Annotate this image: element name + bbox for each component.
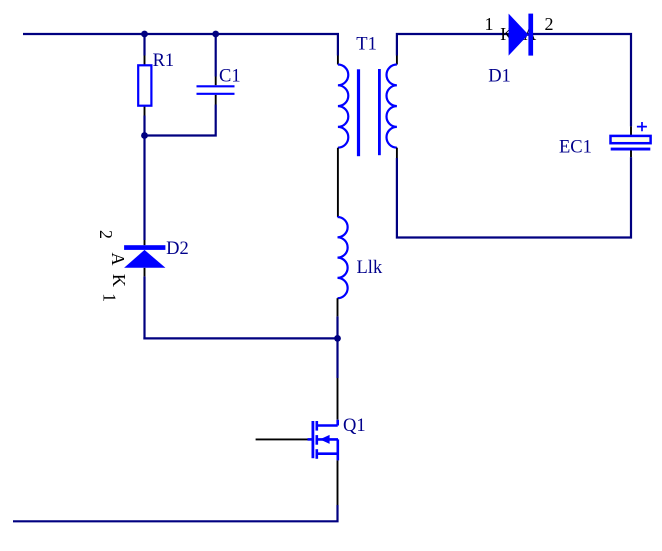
wire: R1 bottom to snubber node bbox=[143, 116, 145, 136]
junction dot: drain node bbox=[334, 335, 341, 342]
svg-text:EC1: EC1 bbox=[559, 138, 592, 158]
wire: C1 top stub bbox=[215, 34, 217, 77]
resistor R1 bbox=[138, 56, 151, 116]
wire: Q1 gate pin lead bbox=[256, 438, 308, 440]
wire: T1 primary bottom lead / Llk top lead bbox=[337, 148, 339, 217]
wire: snubber node down to D2 bbox=[143, 136, 145, 241]
capacitor EC1 bbox=[611, 122, 651, 157]
svg-text:T1: T1 bbox=[356, 34, 377, 54]
wire: Q1 drain pin lead bbox=[337, 378, 339, 420]
svg-text:Llk: Llk bbox=[357, 258, 383, 278]
svg-text:1: 1 bbox=[485, 14, 494, 34]
svg-text:2: 2 bbox=[545, 14, 554, 34]
wire: EC1 bottom to output return to T1 secondary bottom bbox=[397, 157, 631, 237]
svg-text:K: K bbox=[109, 274, 129, 287]
svg-text:A: A bbox=[108, 253, 128, 266]
wire: Llk bottom to drain node bbox=[336, 316, 338, 338]
transistor Q1 bbox=[308, 420, 339, 461]
svg-text:Q1: Q1 bbox=[343, 416, 366, 436]
transformer T1 primary winding bbox=[338, 56, 348, 148]
diode D1 bbox=[509, 14, 534, 56]
wire: C1 bottom over to snubber node bbox=[145, 105, 216, 136]
svg-text:C1: C1 bbox=[219, 66, 241, 86]
diode D2 bbox=[124, 240, 165, 276]
svg-text:2: 2 bbox=[96, 230, 116, 239]
svg-text:R1: R1 bbox=[153, 51, 175, 71]
inductor Llk bbox=[338, 217, 348, 316]
transformer T1 core bbox=[357, 69, 381, 156]
wire: Q1 source pin lead bbox=[337, 460, 339, 505]
wire: T1 secondary top over to output corner and down bbox=[397, 34, 631, 126]
svg-text:D1: D1 bbox=[488, 66, 511, 86]
wire: drain node down to Q1 drain bbox=[336, 338, 338, 378]
svg-text:D2: D2 bbox=[166, 239, 189, 259]
wire: top input bus to T1 primary top bbox=[23, 34, 338, 56]
svg-text:1: 1 bbox=[100, 293, 120, 302]
junction dot: top bus / C1 bbox=[212, 31, 219, 38]
transformer T1 secondary winding bbox=[386, 56, 396, 159]
junction dot: snubber node R1/C1 bbox=[141, 132, 148, 139]
wire: Q1 source to bottom ground bus bbox=[13, 505, 338, 521]
wire: R1 top stub bbox=[143, 34, 145, 56]
junction dot: top bus / R1 bbox=[141, 31, 148, 38]
wire: snubber return to drain node bbox=[143, 337, 337, 339]
capacitor C1 bbox=[197, 77, 235, 105]
wire: D2 down to snubber return corner bbox=[143, 276, 145, 339]
